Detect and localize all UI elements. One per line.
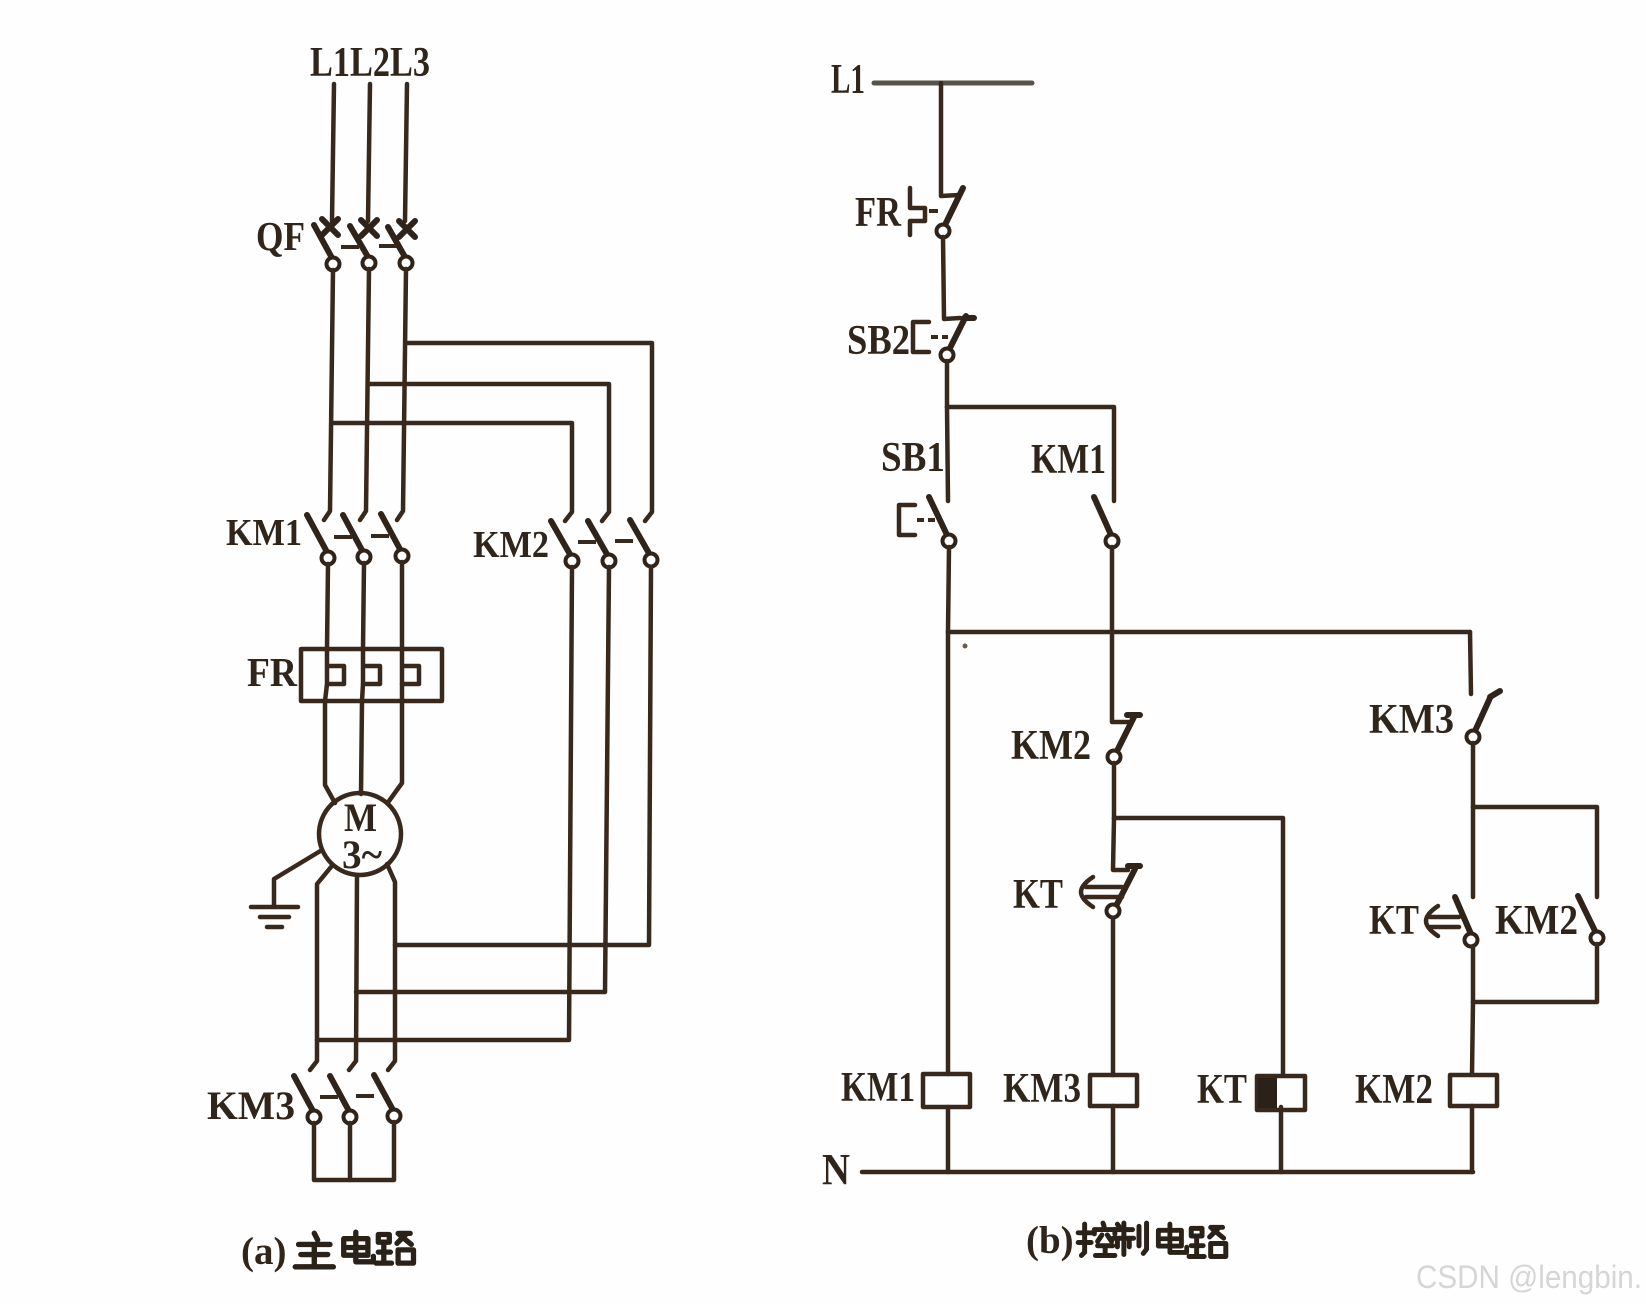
wire KM1 contact down to bus 2 [1110, 547, 1115, 632]
svg-text:KM3: KM3 [1003, 1066, 1081, 1112]
svg-text:(b): (b) [1026, 1219, 1074, 1262]
contactor KM1 pole 3 [381, 514, 409, 563]
svg-text:L1: L1 [831, 57, 865, 103]
svg-text:KM1: KM1 [1031, 437, 1106, 483]
FR heater element 2 [362, 649, 380, 701]
wire KM1 pole1 to FR [327, 564, 328, 649]
wire KM1 pole3 to FR [400, 562, 405, 649]
wire branch L2 to KM2 pole2 [369, 384, 609, 521]
wire KT contact down to coil KM3 [1111, 918, 1116, 1075]
contactor KM2 pole 2 [588, 521, 616, 568]
coil KM3 box [1090, 1075, 1137, 1106]
relay contact FR (NC thermal) [910, 188, 963, 238]
wire branch to KT coil column [1114, 818, 1283, 1074]
breaker QF pole 2 [350, 220, 377, 270]
wire SB1 down to bus 2 [948, 547, 949, 632]
wire KM2 pole3 output down and across [395, 567, 651, 945]
wire middle branch to KM2 NC [1112, 632, 1128, 722]
wire branch L1 to KM2 pole1 [333, 423, 572, 521]
breaker QF pole 3 [388, 221, 415, 270]
caption glyph lu (b) [1189, 1227, 1226, 1256]
wire motor bottom left down to KM3 [310, 867, 331, 1070]
motor M circle [319, 793, 401, 875]
thermal relay FR box [301, 649, 442, 701]
bus 2 junction line [948, 630, 1470, 635]
FR heater element 3 [402, 649, 419, 701]
wire junction to KM2 aux branch [1473, 807, 1597, 897]
caption glyph dian (a) [344, 1232, 374, 1262]
caption glyph lu (a) [376, 1233, 413, 1263]
contact KM3 auxiliary (NO) [1467, 691, 1501, 744]
contactor KM3 pole 3 [374, 1075, 401, 1123]
wire KM2 pole1 output down and across [317, 567, 572, 1040]
svg-text:QF: QF [256, 213, 305, 259]
neutral N line [862, 1170, 1473, 1175]
wire down to right KT contact [1471, 807, 1476, 897]
svg-text:KM3: KM3 [207, 1083, 295, 1128]
coil KM2 box [1450, 1075, 1497, 1106]
wire QF pole1 output down to KM1 [324, 270, 333, 520]
coil KM1 box [923, 1074, 970, 1107]
svg-text:SB2: SB2 [847, 318, 910, 364]
contactor KM3 pole 2 [330, 1076, 357, 1124]
wire KT right contact down to junction [1472, 946, 1473, 1074]
speck artifact [963, 644, 968, 649]
wire down to KT contact [1113, 818, 1128, 870]
wire KM1 pole2 to FR [363, 563, 364, 649]
ground symbol [251, 907, 298, 927]
wire FR output 1 to motor [325, 701, 335, 803]
svg-text:CSDN @lengbin.: CSDN @lengbin. [1416, 1259, 1642, 1295]
wire FR output 2 to motor [361, 701, 362, 794]
svg-text:KM1: KM1 [226, 512, 302, 554]
wire QF pole2 output down to KM1 [360, 269, 369, 520]
wire motor bottom right down to KM3 [387, 864, 395, 1070]
svg-text:KT: KT [1197, 1067, 1247, 1113]
svg-text:L1L2L3: L1L2L3 [310, 40, 430, 86]
pushbutton SB1 (NO start) [899, 497, 956, 548]
FR heater element 1 [325, 649, 344, 701]
wire rail to SB1 [947, 407, 948, 501]
wire junction to KM1 branch [947, 407, 1114, 501]
wire coil KM3 to N [1111, 1106, 1116, 1172]
wire left rail down to coil KM1 [946, 632, 951, 1074]
contact KM2 auxiliary (NO) [1578, 896, 1604, 945]
svg-text:KT: KT [1013, 872, 1063, 918]
wire right branch down [1470, 632, 1471, 694]
wire FR output 3 to motor [389, 701, 402, 801]
wire KM2 aux down and across [1473, 944, 1597, 1002]
breaker QF linkage dashes [341, 246, 397, 247]
wire coil KT to N [1279, 1107, 1284, 1172]
control L1 bus line [874, 81, 1032, 86]
contactor KM3 pole 1 [294, 1076, 321, 1124]
coil KT box [1257, 1076, 1305, 1110]
caption glyph dian (b) [1158, 1224, 1186, 1252]
contactor KM3 linkage dashes [320, 1096, 374, 1097]
svg-text:FR: FR [855, 190, 902, 236]
svg-text:KM2: KM2 [1355, 1067, 1433, 1113]
wire QF pole3 output down to KM1 [397, 269, 406, 520]
wire branch L3 to KM2 pole3 [406, 343, 652, 521]
caption glyph kong [1078, 1223, 1115, 1255]
control main rail upper [941, 83, 959, 196]
contactor KM1 pole 1 [307, 515, 335, 565]
svg-text:FR: FR [247, 649, 297, 695]
svg-text:KM3: KM3 [1369, 697, 1454, 743]
contact KT (NO delayed, right) [1426, 897, 1478, 947]
wire coil KM2 to N [1470, 1106, 1475, 1172]
contactor KM1 pole 2 [343, 515, 371, 564]
wire KM3 contact to junction [1471, 743, 1476, 807]
pushbutton SB2 (NC stop) [913, 316, 974, 362]
caption glyph zhi [1113, 1223, 1146, 1254]
wire FR to SB2 [943, 237, 960, 319]
breaker QF pole 1 [314, 219, 340, 271]
contactor KM2 pole 3 [630, 520, 658, 567]
wire KM2 pole2 output down and across [356, 567, 609, 992]
svg-text:3~: 3~ [342, 832, 382, 877]
wire phase L1 drop to QF [332, 84, 334, 221]
contactor KM2 pole 1 [551, 521, 579, 568]
svg-text:SB1: SB1 [881, 435, 945, 481]
ground wire from motor [274, 850, 322, 905]
contact KT (NC delayed) [1081, 866, 1140, 918]
contact KM1 auxiliary (NO) [1094, 497, 1119, 548]
coil KT dark blob [1258, 1078, 1277, 1108]
svg-text:KM1: KM1 [841, 1065, 915, 1111]
contactor KM2 linkage dashes [578, 541, 633, 542]
wire SB2 to junction [945, 361, 950, 407]
wire phase L3 drop to QF [405, 84, 407, 221]
svg-text:KM2: KM2 [1011, 723, 1091, 769]
wire coil KM1 to N [946, 1107, 951, 1172]
wire KM2 NC to KT junction [1112, 763, 1117, 818]
contact KM2 (NC interlock) [1108, 715, 1141, 764]
svg-text:KM2: KM2 [1495, 898, 1578, 944]
wire phase L2 drop to QF [368, 84, 370, 221]
contactor KM1 linkage dashes [334, 536, 389, 537]
wire KM3 middle output [348, 1123, 353, 1180]
wire KM3 outputs to star bus [314, 1122, 394, 1180]
svg-text:N: N [822, 1145, 850, 1194]
svg-text:(a): (a) [241, 1230, 286, 1273]
caption glyph zhu [295, 1233, 333, 1267]
wire motor bottom middle down to KM3 [349, 875, 357, 1070]
svg-text:KT: KT [1369, 898, 1419, 944]
svg-text:KM2: KM2 [473, 524, 549, 566]
